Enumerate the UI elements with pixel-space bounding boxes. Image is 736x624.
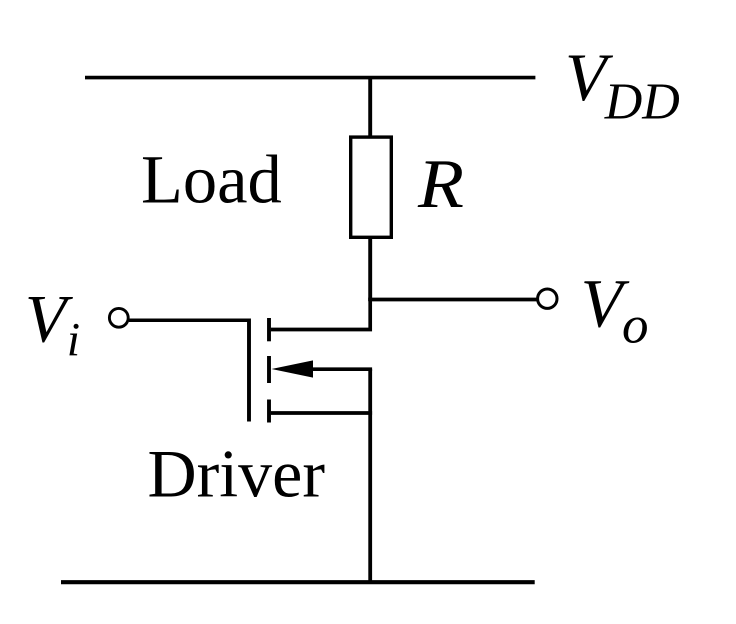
svg-text:Load: Load — [141, 142, 282, 218]
wire output node to terminal — [368, 298, 536, 302]
transistor Q1 channel bar top — [267, 318, 271, 341]
svg-text:DD: DD — [604, 73, 680, 130]
terminal Vo — [538, 289, 557, 308]
ground rail — [61, 580, 535, 584]
body arrow of Q1 — [272, 360, 373, 377]
label V_o — [581, 265, 649, 354]
svg-text:i: i — [67, 314, 80, 367]
svg-text:Driver: Driver — [148, 436, 326, 512]
svg-text:o: o — [622, 297, 649, 355]
terminal Vi — [109, 308, 128, 327]
wire VDD to resistor — [368, 78, 372, 137]
label V_DD — [565, 39, 680, 130]
transistor Q1 channel bar bottom — [267, 400, 271, 423]
wire drain — [271, 298, 370, 330]
wire Vi terminal to gate — [129, 319, 250, 323]
label V_i — [25, 280, 80, 366]
resistor R — [351, 137, 392, 237]
wire resistor to node — [368, 237, 372, 301]
wire VDD rail — [85, 76, 535, 80]
wire source — [271, 411, 372, 415]
transistor Q1 gate line — [247, 319, 251, 422]
svg-text:R: R — [417, 146, 464, 223]
wire source to ground rail — [368, 369, 372, 582]
transistor Q1 channel bar middle — [267, 356, 271, 383]
